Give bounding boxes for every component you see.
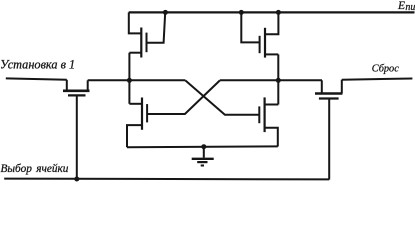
- wire: right node Q-bar vertical: [277, 54, 279, 104]
- transistor T3 (left driver MOSFET): [127, 98, 147, 148]
- wire: right node Q-bar horizontal: [220, 79, 322, 81]
- wire: cross-coupling Q to T4 gate: [185, 80, 259, 114]
- wire: set input line: [6, 78, 67, 79]
- wire: +E supply rail (top): [129, 11, 415, 13]
- transistor T2 (right load MOSFET): [241, 12, 278, 57]
- junction: T5 gate on select line: [74, 177, 79, 182]
- wire: reset output line: [342, 79, 413, 80]
- junction: T1 gate to rail: [163, 10, 168, 15]
- svg-text:Епит: Епит: [397, 0, 415, 13]
- junction: left node Q: [127, 78, 132, 83]
- transistor T5 (left access MOSFET): [63, 80, 90, 180]
- junction: ground on source rail: [201, 144, 206, 149]
- transistor T6 (right access MOSFET): [315, 80, 342, 180]
- junction: right node Q-bar: [276, 78, 281, 83]
- svg-text:Сброс: Сброс: [372, 64, 399, 75]
- wire: common source rail (bottom of cell): [127, 145, 278, 148]
- transistor T1 (left load MOSFET): [129, 12, 165, 57]
- wire: cross-coupling Q-bar to T3 gate: [147, 80, 220, 114]
- svg-text:Установка в 1: Установка в 1: [0, 58, 75, 72]
- wire: left node Q vertical: [128, 53, 130, 104]
- transistor T4 (right driver MOSFET): [259, 97, 278, 146]
- ground: [192, 147, 214, 166]
- wire: cell select line (bottom): [4, 178, 329, 181]
- wire: left node Q horizontal: [88, 79, 186, 81]
- junction: T2 drain to rail: [276, 10, 281, 15]
- junction: T2 gate to rail: [239, 10, 244, 15]
- svg-text:Выбор ячейки: Выбор ячейки: [1, 163, 69, 175]
